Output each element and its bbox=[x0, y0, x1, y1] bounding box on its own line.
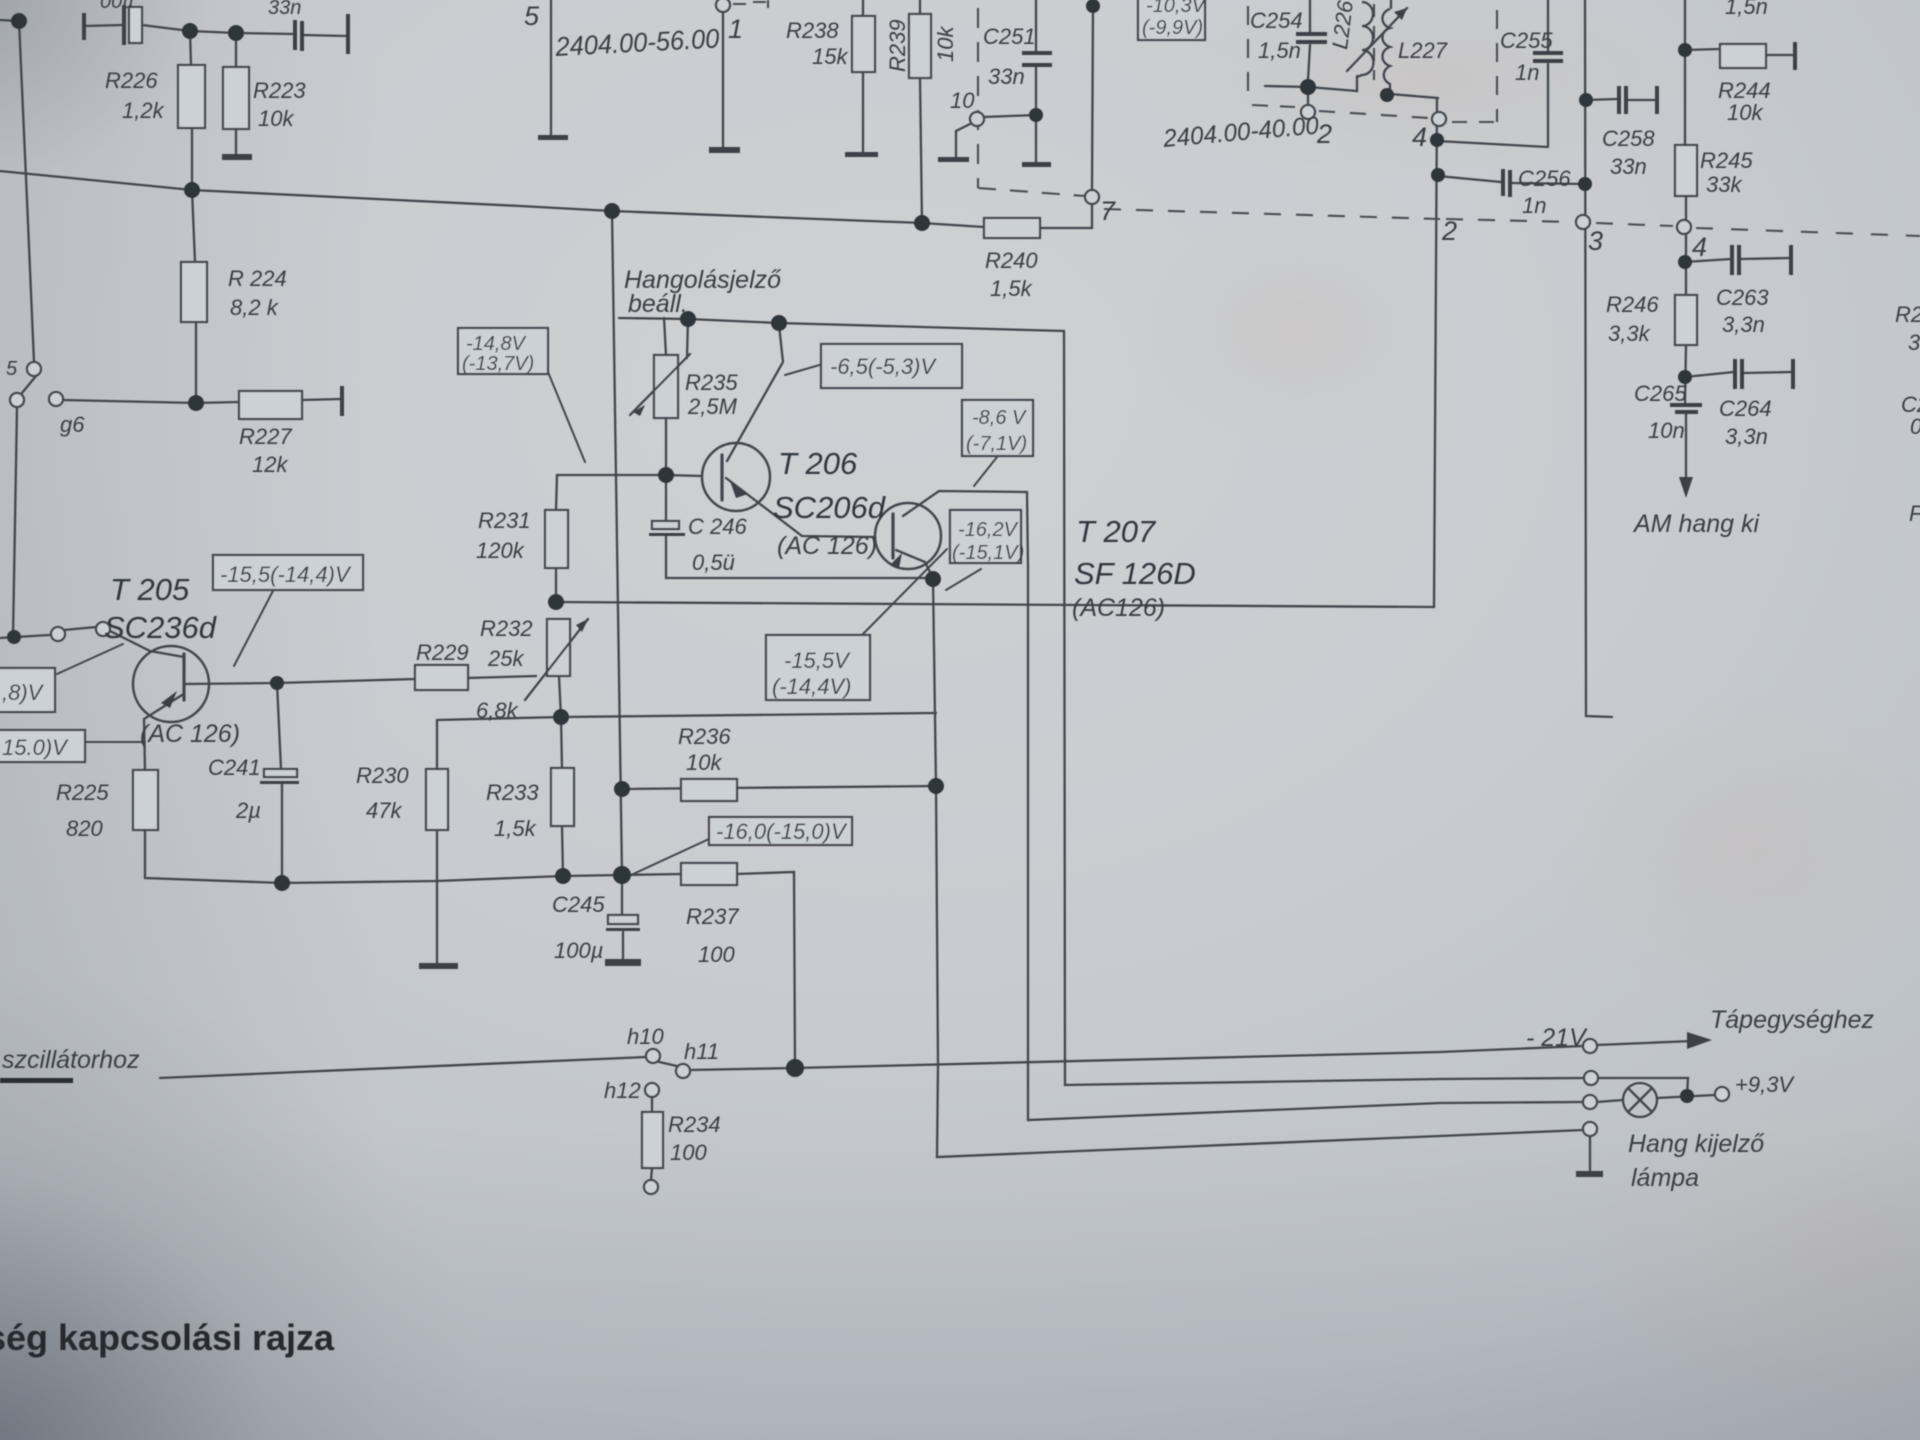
svg-text:47k: 47k bbox=[366, 798, 402, 823]
svg-text:5: 5 bbox=[6, 358, 18, 380]
svg-text:820: 820 bbox=[66, 816, 103, 841]
svg-text:R2: R2 bbox=[1895, 302, 1920, 327]
svg-text:R229: R229 bbox=[416, 640, 469, 665]
svg-text:1,2k: 1,2k bbox=[122, 98, 165, 123]
svg-text:SC206d: SC206d bbox=[773, 490, 887, 525]
svg-text:(AC 126): (AC 126) bbox=[140, 720, 240, 748]
svg-text:3,3n: 3,3n bbox=[1722, 312, 1765, 337]
svg-text:C254: C254 bbox=[1250, 8, 1303, 33]
svg-text:8,2 k: 8,2 k bbox=[230, 295, 279, 320]
svg-text:2,5M: 2,5M bbox=[687, 394, 738, 419]
svg-text:4: 4 bbox=[1412, 122, 1427, 152]
svg-text:R235: R235 bbox=[685, 370, 738, 395]
svg-text:-8,6 V: -8,6 V bbox=[972, 407, 1027, 429]
svg-text:100: 100 bbox=[670, 1140, 707, 1165]
svg-text:15.0)V: 15.0)V bbox=[2, 735, 69, 760]
svg-text:szcillátorhoz: szcillátorhoz bbox=[2, 1046, 140, 1074]
svg-text:C264: C264 bbox=[1719, 396, 1772, 421]
svg-text:+9,3V: +9,3V bbox=[1735, 1072, 1795, 1097]
svg-text:10k: 10k bbox=[686, 750, 722, 775]
svg-text:Hang kijelző: Hang kijelző bbox=[1628, 1130, 1765, 1158]
svg-text:0,: 0, bbox=[1910, 414, 1920, 439]
svg-text:(AC126): (AC126) bbox=[1072, 594, 1165, 622]
svg-text:R245: R245 bbox=[1700, 148, 1753, 173]
svg-text:-15,5(-14,4)V: -15,5(-14,4)V bbox=[220, 562, 352, 587]
svg-text:0,5ü: 0,5ü bbox=[692, 550, 735, 575]
svg-text:1: 1 bbox=[728, 14, 743, 44]
svg-text:1,5k: 1,5k bbox=[990, 276, 1033, 301]
svg-text:(AC 126): (AC 126) bbox=[777, 532, 877, 560]
svg-text:-6,5(-5,3)V: -6,5(-5,3)V bbox=[830, 354, 937, 379]
svg-text:1,5k: 1,5k bbox=[494, 816, 537, 841]
svg-text:(-15,1V): (-15,1V) bbox=[952, 542, 1024, 564]
svg-text:100: 100 bbox=[698, 942, 735, 967]
svg-text:T 206: T 206 bbox=[778, 446, 858, 481]
svg-text:(-14,4V): (-14,4V) bbox=[772, 674, 851, 699]
svg-text:R240: R240 bbox=[985, 248, 1038, 273]
svg-text:2: 2 bbox=[1441, 216, 1457, 246]
svg-text:R238: R238 bbox=[786, 18, 839, 43]
svg-text:R227: R227 bbox=[239, 424, 292, 449]
svg-text:33k: 33k bbox=[1706, 172, 1742, 197]
svg-text:R239: R239 bbox=[885, 19, 910, 72]
svg-text:-10,3V: -10,3V bbox=[1146, 0, 1207, 17]
svg-text:L227: L227 bbox=[1398, 38, 1448, 63]
svg-text:(-7,1V): (-7,1V) bbox=[966, 433, 1027, 455]
svg-text:AM hang ki: AM hang ki bbox=[1632, 510, 1761, 538]
svg-text:h12: h12 bbox=[604, 1078, 641, 1103]
svg-text:R230: R230 bbox=[356, 763, 409, 788]
svg-text:ség kapcsolási rajza: ség kapcsolási rajza bbox=[0, 1317, 335, 1358]
svg-text:R234: R234 bbox=[668, 1112, 721, 1137]
svg-text:100µ: 100µ bbox=[554, 938, 603, 963]
svg-text:(-13,7V): (-13,7V) bbox=[462, 353, 534, 375]
svg-text:12k: 12k bbox=[252, 452, 288, 477]
svg-text:2µ: 2µ bbox=[235, 798, 261, 823]
svg-text:T 205: T 205 bbox=[110, 572, 190, 607]
svg-text:2: 2 bbox=[1316, 119, 1332, 149]
svg-text:C 246: C 246 bbox=[688, 514, 747, 539]
svg-text:R232: R232 bbox=[480, 616, 533, 641]
svg-text:10n: 10n bbox=[1648, 418, 1685, 443]
svg-text:R223: R223 bbox=[253, 78, 306, 103]
svg-text:T 207: T 207 bbox=[1076, 514, 1157, 549]
svg-text:C255: C255 bbox=[1500, 28, 1553, 53]
svg-text:R236: R236 bbox=[678, 724, 731, 749]
svg-text:R233: R233 bbox=[486, 780, 539, 805]
svg-text:3: 3 bbox=[1588, 226, 1603, 256]
svg-text:-15,5V: -15,5V bbox=[784, 648, 851, 673]
svg-text:C265: C265 bbox=[1634, 381, 1687, 406]
svg-text:1,5n: 1,5n bbox=[1258, 38, 1301, 63]
svg-text:1,5n: 1,5n bbox=[1725, 0, 1768, 19]
svg-text:3,3k: 3,3k bbox=[1608, 321, 1651, 346]
svg-text:7: 7 bbox=[1100, 196, 1116, 226]
svg-text:C263: C263 bbox=[1716, 285, 1769, 310]
svg-text:,8)V: ,8)V bbox=[2, 680, 45, 705]
svg-text:C251: C251 bbox=[983, 24, 1036, 49]
svg-text:120k: 120k bbox=[476, 538, 525, 563]
svg-text:C256: C256 bbox=[1518, 166, 1571, 191]
svg-text:(-9,9V): (-9,9V) bbox=[1142, 17, 1203, 39]
svg-text:SC236d: SC236d bbox=[104, 610, 218, 645]
svg-text:- 21V: - 21V bbox=[1526, 1024, 1588, 1052]
svg-text:00µ: 00µ bbox=[100, 0, 134, 13]
svg-text:3,: 3, bbox=[1908, 330, 1920, 355]
svg-text:4: 4 bbox=[1692, 232, 1707, 262]
svg-text:10k: 10k bbox=[933, 26, 958, 62]
svg-text:SF 126D: SF 126D bbox=[1074, 556, 1196, 591]
svg-text:-16,2V: -16,2V bbox=[958, 519, 1019, 541]
svg-text:g6: g6 bbox=[60, 412, 85, 437]
svg-text:1n: 1n bbox=[1522, 193, 1546, 218]
svg-text:6,8k: 6,8k bbox=[476, 698, 519, 723]
svg-text:10k: 10k bbox=[258, 106, 294, 131]
svg-text:beáll.: beáll. bbox=[628, 290, 688, 318]
svg-text:h10: h10 bbox=[627, 1024, 664, 1049]
svg-text:5: 5 bbox=[524, 1, 540, 31]
svg-text:33n: 33n bbox=[988, 64, 1025, 89]
svg-text:R 224: R 224 bbox=[228, 266, 287, 291]
svg-text:Tápegységhez: Tápegységhez bbox=[1710, 1006, 1875, 1034]
svg-text:F: F bbox=[1909, 501, 1920, 526]
svg-text:R225: R225 bbox=[56, 780, 109, 805]
svg-text:lámpa: lámpa bbox=[1631, 1164, 1699, 1192]
svg-text:C258: C258 bbox=[1602, 126, 1655, 151]
svg-text:1n: 1n bbox=[1515, 60, 1539, 85]
svg-text:R231: R231 bbox=[478, 508, 531, 533]
svg-text:R237: R237 bbox=[686, 904, 739, 929]
svg-text:C245: C245 bbox=[552, 892, 605, 917]
svg-text:15k: 15k bbox=[812, 44, 848, 69]
svg-text:C241: C241 bbox=[208, 755, 261, 780]
svg-text:33n: 33n bbox=[268, 0, 301, 19]
svg-text:R226: R226 bbox=[105, 68, 158, 93]
svg-text:25k: 25k bbox=[487, 646, 524, 671]
svg-text:-14,8V: -14,8V bbox=[466, 333, 527, 355]
svg-text:h11: h11 bbox=[684, 1039, 719, 1064]
svg-text:R246: R246 bbox=[1606, 292, 1659, 317]
svg-text:33n: 33n bbox=[1610, 154, 1647, 179]
svg-text:10: 10 bbox=[950, 88, 975, 113]
svg-text:-16,0(-15,0)V: -16,0(-15,0)V bbox=[716, 819, 848, 844]
svg-text:3,3n: 3,3n bbox=[1725, 424, 1768, 449]
svg-text:10k: 10k bbox=[1727, 100, 1763, 125]
